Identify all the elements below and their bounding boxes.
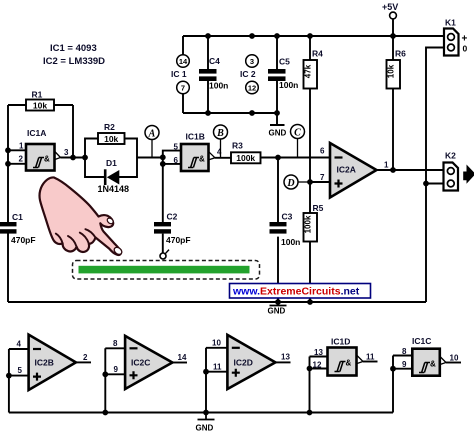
svg-text:5: 5: [174, 143, 179, 152]
node: dot on right vertical: [423, 181, 429, 187]
hand pointing at touch plate: [40, 177, 124, 255]
wire R4 top lead: [309, 36, 311, 60]
capacitor C3: [270, 212, 301, 248]
op-amp IC2A: [320, 143, 389, 198]
ground GND2: [268, 302, 287, 316]
svg-text:C1: C1: [12, 212, 23, 222]
svg-text:IC1C: IC1C: [412, 336, 431, 346]
svg-text:K2: K2: [445, 151, 456, 161]
node: junction dots on lower rail: [205, 110, 255, 116]
svg-text:6: 6: [320, 147, 325, 156]
svg-text:13: 13: [281, 353, 290, 362]
svg-text:100n: 100n: [209, 81, 228, 91]
resistor R5: [304, 182, 324, 302]
svg-text:A: A: [148, 129, 156, 140]
svg-text:100n: 100n: [281, 237, 300, 247]
comparator IC2C: [102, 336, 187, 413]
wire IC2A pin7: [310, 181, 330, 183]
svg-text:100k: 100k: [236, 153, 255, 163]
svg-text:1: 1: [384, 161, 389, 170]
wire C4 leads: [207, 36, 209, 113]
resistor R1: [8, 90, 73, 158]
svg-text:14: 14: [179, 57, 188, 66]
svg-text:D: D: [286, 178, 294, 189]
svg-text:R1: R1: [32, 90, 43, 100]
wire C3 vertical: [277, 158, 279, 303]
node D: [284, 175, 310, 189]
svg-text:IC1A: IC1A: [27, 128, 46, 138]
supply +5V terminal: [382, 2, 398, 36]
touch terminal (open circle with tick): [160, 250, 169, 259]
node: bus dots: [102, 410, 312, 416]
svg-text:IC2B: IC2B: [35, 358, 54, 368]
svg-text:GND: GND: [196, 424, 214, 433]
svg-text:2: 2: [83, 353, 88, 362]
svg-text:1: 1: [19, 142, 24, 151]
svg-text:470pF: 470pF: [166, 235, 191, 245]
gate IC1B: [174, 132, 223, 172]
svg-text:11: 11: [366, 353, 375, 362]
resistor R6: [387, 49, 407, 89]
wire IC2A output to K2: [377, 169, 444, 171]
svg-text:&: &: [346, 359, 352, 368]
svg-text:C4: C4: [209, 56, 220, 66]
node: dot R4/R5/pin7: [307, 179, 313, 185]
svg-text:&: &: [44, 155, 50, 164]
banner www.ExtremeCircuits.net: [230, 284, 371, 299]
svg-text:IC 1: IC 1: [171, 69, 187, 79]
svg-text:R6: R6: [395, 49, 406, 59]
svg-text:www.ExtremeCircuits.net: www.ExtremeCircuits.net: [232, 286, 360, 298]
node: dots pins 1,2: [5, 147, 11, 166]
node: dot C3 junction: [275, 155, 281, 161]
svg-text:C2: C2: [167, 212, 178, 222]
svg-text:6: 6: [174, 156, 179, 165]
touch plate green bar: [79, 266, 250, 274]
title note IC1/IC2: [43, 43, 105, 67]
diode D1 1N4148: [85, 158, 137, 195]
resistor R2: [85, 122, 137, 158]
fingernails: [113, 246, 123, 256]
output arrow: [463, 165, 474, 184]
svg-text:47k: 47k: [304, 64, 313, 78]
svg-text:R2: R2: [104, 122, 115, 132]
comparator IC2D: [203, 335, 290, 413]
svg-text:R5: R5: [313, 203, 324, 213]
svg-text:11: 11: [213, 363, 222, 372]
wire ground bottom: [8, 301, 426, 303]
svg-text:470pF: 470pF: [11, 235, 36, 245]
svg-text:B: B: [216, 128, 224, 139]
node: dots IC1B inputs: [160, 154, 166, 166]
wire left vertical net (R1/C1/pins 1-2): [8, 105, 26, 302]
wire C2 vertical: [162, 164, 164, 222]
node A: [145, 126, 159, 158]
svg-text:7: 7: [181, 84, 185, 93]
svg-text:IC2D: IC2D: [234, 358, 253, 368]
svg-text:IC1D: IC1D: [331, 337, 350, 347]
gate IC1A: [19, 128, 70, 171]
svg-text:10: 10: [450, 354, 459, 363]
svg-text:GND: GND: [269, 129, 287, 138]
wire K2 lower pin: [426, 183, 444, 185]
svg-text:4: 4: [217, 148, 222, 157]
svg-text:12: 12: [313, 361, 322, 370]
svg-text:10k: 10k: [104, 134, 118, 144]
svg-text:13: 13: [314, 348, 323, 357]
node C: [291, 125, 305, 158]
wire IC1B input joins: [163, 151, 181, 164]
comparator IC2B: [6, 335, 91, 413]
svg-text:2: 2: [19, 155, 24, 164]
wire R6 bottom lead to IC2A output node: [392, 89, 394, 171]
IC1 power pin 14: [177, 55, 190, 68]
wire IC1A output: [61, 157, 86, 159]
svg-text:R3: R3: [232, 141, 243, 151]
svg-text:C5: C5: [279, 57, 290, 67]
svg-text:14: 14: [178, 353, 187, 362]
svg-text:IC2C: IC2C: [131, 358, 150, 368]
svg-text:C3: C3: [282, 212, 293, 222]
svg-text:+5V: +5V: [382, 2, 398, 12]
svg-text:K1: K1: [445, 18, 456, 28]
capacitor C2: [154, 212, 191, 253]
svg-text:1N4148: 1N4148: [98, 184, 130, 194]
gate IC1C: [390, 336, 461, 413]
svg-text:R4: R4: [312, 49, 323, 59]
svg-text:0: 0: [463, 44, 468, 54]
svg-text:IC2A: IC2A: [337, 165, 356, 175]
svg-text:10: 10: [212, 339, 221, 348]
svg-text:4: 4: [17, 340, 22, 349]
capacitor C5: [268, 57, 298, 91]
wire R4 bottom lead down to pin7 node: [309, 89, 311, 183]
connector K1: [444, 18, 468, 56]
wire K1 pin0 to ground rail (right vertical): [426, 48, 444, 303]
wire IC1B output to R3: [215, 157, 231, 159]
svg-text:3: 3: [64, 148, 69, 157]
capacitor C1: [0, 212, 36, 245]
ground GND1 (decoupling rail): [269, 110, 287, 137]
wire: lower decoupling rail: [183, 36, 277, 113]
IC2 power pin 12: [246, 81, 259, 94]
node: dots output pin3: [70, 155, 88, 161]
svg-text:8: 8: [113, 339, 118, 348]
resistor R3: [231, 141, 261, 164]
node B: [214, 125, 228, 158]
svg-text:12: 12: [248, 84, 256, 93]
svg-text:&: &: [430, 360, 436, 369]
node: dot output: [390, 167, 396, 173]
svg-text:5: 5: [18, 366, 23, 375]
svg-text:IC2 = LM339D: IC2 = LM339D: [43, 56, 105, 67]
wire C5 leads: [276, 36, 278, 113]
connector K2: [444, 151, 459, 191]
capacitor C4: [199, 56, 228, 91]
svg-text:&: &: [199, 155, 205, 164]
touch plate dashed outline: [73, 261, 260, 280]
svg-text:IC 2: IC 2: [240, 69, 256, 79]
wire R3 to IC2A pin6: [261, 157, 331, 159]
svg-text:D1: D1: [106, 158, 117, 168]
resistor R4: [304, 49, 324, 89]
svg-text:9: 9: [402, 360, 407, 369]
svg-text:10k: 10k: [387, 64, 396, 78]
wire R6 top lead: [392, 36, 394, 60]
svg-text:100k: 100k: [304, 215, 313, 233]
svg-text:C: C: [294, 128, 301, 139]
svg-text:100n: 100n: [279, 80, 298, 90]
node: junction dots on top rail: [205, 33, 396, 39]
svg-text:7: 7: [320, 173, 325, 182]
svg-text:IC1B: IC1B: [186, 132, 205, 142]
gate IC1D: [307, 337, 378, 413]
node: dots on ground wire: [275, 299, 313, 305]
svg-text:10k: 10k: [33, 101, 47, 111]
wire spare bus: [9, 412, 393, 414]
svg-text:3: 3: [250, 57, 254, 66]
wire: +5V top rail: [183, 35, 444, 37]
svg-text:9: 9: [114, 365, 119, 374]
IC2 power pin 3: [246, 55, 259, 68]
IC1 power pin 7: [177, 81, 190, 94]
ground GND3: [196, 413, 215, 433]
svg-text:8: 8: [402, 347, 407, 356]
wire to node A / IC1B: [137, 157, 163, 159]
svg-text:IC1 = 4093: IC1 = 4093: [50, 43, 97, 54]
svg-text:GND: GND: [268, 307, 286, 316]
